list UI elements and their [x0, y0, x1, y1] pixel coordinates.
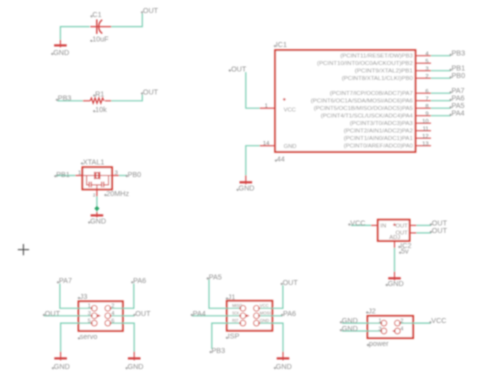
svg-text:1: 1: [78, 171, 81, 177]
svg-text:PA4: PA4: [452, 109, 465, 118]
svg-text:PB3: PB3: [58, 94, 72, 103]
svg-text:10: 10: [422, 119, 428, 125]
svg-text:(PCINT1/AIN0/ADC1)PA1: (PCINT1/AIN0/ADC1)PA1: [344, 136, 413, 142]
svg-text:(PCINT9/XTAL2)PB1: (PCINT9/XTAL2)PB1: [355, 69, 413, 75]
svg-text:6: 6: [111, 318, 114, 324]
svg-text:13: 13: [422, 141, 428, 147]
svg-text:(PCINT7/ICP/OC0B/ADC7)PA7: (PCINT7/ICP/OC0B/ADC7)PA7: [330, 91, 413, 97]
svg-text:10uF: 10uF: [92, 35, 109, 44]
svg-text:3: 3: [378, 326, 381, 332]
svg-text:(PCINT3/T0/ADC3)PA3: (PCINT3/T0/ADC3)PA3: [350, 121, 413, 127]
svg-text:OUT: OUT: [231, 64, 247, 73]
svg-text:VCC: VCC: [350, 218, 365, 227]
svg-text:14: 14: [263, 141, 270, 147]
svg-text:PB3: PB3: [452, 49, 466, 58]
svg-text:OUT: OUT: [395, 224, 408, 230]
svg-text:VCC: VCC: [431, 316, 446, 325]
svg-text:2: 2: [111, 304, 114, 310]
svg-text:9: 9: [425, 111, 428, 117]
svg-text:IN: IN: [380, 224, 386, 230]
svg-text:GND: GND: [260, 318, 270, 324]
svg-text:2: 2: [400, 319, 403, 325]
svg-text:1: 1: [378, 319, 381, 325]
svg-text:5: 5: [88, 318, 91, 324]
svg-text:11: 11: [423, 126, 429, 132]
svg-text:OUT: OUT: [283, 278, 299, 287]
svg-text:12: 12: [422, 134, 428, 140]
svg-text:power: power: [369, 339, 389, 348]
svg-text:R1: R1: [95, 90, 104, 99]
svg-text:(PCINT11/RESET/DW)PB3: (PCINT11/RESET/DW)PB3: [340, 54, 413, 60]
svg-text:GND: GND: [284, 144, 297, 150]
svg-text:PB0: PB0: [452, 71, 466, 80]
svg-text:3: 3: [115, 171, 118, 177]
svg-text:OUT: OUT: [432, 226, 448, 235]
svg-text:1: 1: [265, 103, 268, 109]
svg-text:PA6: PA6: [133, 276, 146, 285]
svg-text:OUT: OUT: [135, 309, 151, 318]
svg-text:GND: GND: [276, 362, 292, 371]
svg-text:GND: GND: [90, 216, 106, 225]
svg-text:(PCINT0/AREF/ADC0)PA0: (PCINT0/AREF/ADC0)PA0: [344, 144, 413, 150]
svg-text:7: 7: [425, 96, 428, 102]
svg-text:3: 3: [88, 311, 91, 317]
svg-text:OUT: OUT: [45, 309, 61, 318]
svg-text:SCK: SCK: [232, 311, 240, 317]
svg-text:J3: J3: [80, 292, 88, 301]
svg-text:(PCINT6/OC1A/SDA/MOSI/ADC6)PA6: (PCINT6/OC1A/SDA/MOSI/ADC6)PA6: [311, 99, 413, 105]
svg-text:GND: GND: [388, 279, 404, 288]
svg-text:GND: GND: [128, 362, 144, 371]
svg-text:5v: 5v: [401, 247, 409, 256]
svg-text:(PCINT5/OC1B/MISO/DO/ADC5)PA5: (PCINT5/OC1B/MISO/DO/ADC5)PA5: [314, 106, 413, 112]
svg-text:PA5: PA5: [209, 272, 222, 281]
svg-text:GND: GND: [53, 48, 69, 57]
svg-text:VCC: VCC: [284, 107, 296, 113]
svg-text:PA7: PA7: [59, 276, 72, 285]
svg-text:(PCINT8/XTAL1/CLKI)PB0: (PCINT8/XTAL1/CLKI)PB0: [342, 76, 413, 82]
svg-text:5: 5: [425, 59, 428, 65]
svg-text:J1: J1: [228, 293, 236, 302]
svg-text:ISP: ISP: [228, 332, 240, 341]
svg-text:2: 2: [425, 74, 428, 80]
svg-text:OUT: OUT: [143, 6, 159, 15]
svg-text:GND: GND: [239, 184, 255, 193]
svg-text:PB0: PB0: [128, 170, 142, 179]
svg-text:J2: J2: [368, 306, 376, 315]
svg-text:XTAL1: XTAL1: [83, 157, 104, 166]
svg-text:GND: GND: [342, 324, 358, 333]
svg-text:ADJ: ADJ: [389, 235, 400, 241]
svg-text:VCC: VCC: [260, 303, 270, 309]
svg-text:GND: GND: [54, 362, 70, 371]
svg-text:IC1: IC1: [276, 40, 287, 49]
svg-text:PA4: PA4: [193, 309, 206, 318]
svg-text:servo: servo: [80, 332, 98, 341]
svg-text:C1: C1: [92, 10, 101, 19]
svg-text:PB1: PB1: [56, 170, 70, 179]
svg-text:(PCINT10/INT0/OC0A/CKOUT)PB2: (PCINT10/INT0/OC0A/CKOUT)PB2: [317, 61, 413, 67]
svg-text:44: 44: [277, 155, 285, 164]
svg-text:3: 3: [425, 66, 428, 72]
svg-text:MISO: MISO: [232, 303, 242, 309]
svg-text:20MHz: 20MHz: [106, 189, 129, 198]
svg-text:PA6: PA6: [283, 309, 296, 318]
svg-text:MOSI: MOSI: [260, 311, 271, 317]
svg-text:1: 1: [88, 304, 91, 310]
svg-text:8: 8: [425, 104, 428, 110]
svg-text:(PCINT2/AIN1/ADC2)PA2: (PCINT2/AIN1/ADC2)PA2: [344, 129, 413, 135]
svg-text:2: 2: [93, 192, 96, 198]
svg-text:PB3: PB3: [212, 346, 226, 355]
svg-text:(PCINT4/T1/SCL/USCK/ADC4)PA4: (PCINT4/T1/SCL/USCK/ADC4)PA4: [321, 114, 413, 120]
svg-text:OUT: OUT: [143, 87, 159, 96]
svg-text:RST: RST: [232, 318, 238, 324]
svg-text:10k: 10k: [95, 105, 107, 114]
svg-text:6: 6: [425, 89, 428, 95]
